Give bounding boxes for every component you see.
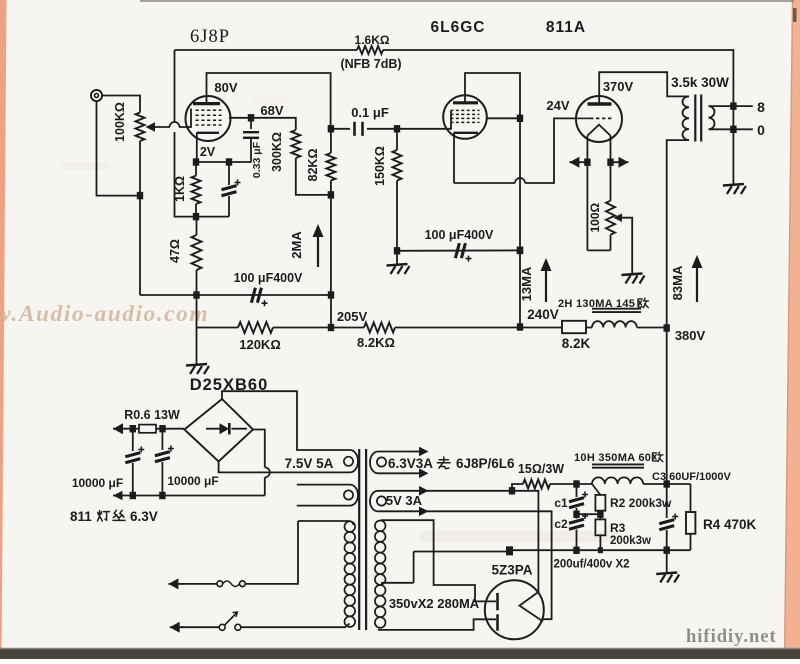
svg-text:200uf/400v X2: 200uf/400v X2	[553, 559, 629, 571]
svg-text:6J8P/6L6: 6J8P/6L6	[456, 456, 515, 471]
svg-text:240V: 240V	[527, 307, 559, 322]
svg-text:(NFB 7dB): (NFB 7dB)	[340, 57, 401, 71]
svg-text:c1: c1	[554, 496, 568, 510]
svg-text:ww.Audio-audio.com: ww.Audio-audio.com	[0, 301, 209, 327]
svg-text:10000 μF: 10000 μF	[167, 474, 218, 488]
svg-text:100 μF400V: 100 μF400V	[425, 228, 494, 242]
svg-text:2MA: 2MA	[289, 231, 304, 259]
svg-text:350vX2 280MA: 350vX2 280MA	[389, 596, 480, 611]
svg-text:10000 μF: 10000 μF	[72, 476, 123, 490]
svg-text:6J8P: 6J8P	[190, 27, 230, 47]
svg-text:200k3w: 200k3w	[610, 535, 651, 547]
svg-text:3.5k 30W: 3.5k 30W	[671, 75, 729, 90]
svg-text:82KΩ: 82KΩ	[306, 149, 320, 182]
svg-text:2V: 2V	[200, 145, 216, 159]
svg-text:120KΩ: 120KΩ	[239, 337, 281, 352]
svg-text:1.6KΩ: 1.6KΩ	[355, 33, 390, 47]
svg-text:R2 200k3w: R2 200k3w	[610, 496, 672, 510]
svg-text:8: 8	[757, 99, 765, 115]
svg-text:0.33 μF: 0.33 μF	[251, 141, 263, 178]
svg-text:80V: 80V	[214, 80, 237, 95]
svg-text:8.2KΩ: 8.2KΩ	[357, 335, 395, 350]
svg-text:68V: 68V	[260, 103, 283, 118]
svg-text:150KΩ: 150KΩ	[373, 146, 387, 186]
svg-text:0: 0	[757, 122, 765, 138]
svg-text:10H 350MA 60: 10H 350MA 60	[574, 452, 651, 464]
svg-text:100KΩ: 100KΩ	[113, 102, 127, 142]
svg-text:6L6GC: 6L6GC	[431, 19, 486, 36]
svg-text:hifidiy.net: hifidiy.net	[686, 627, 777, 647]
svg-text:100Ω: 100Ω	[588, 203, 602, 233]
svg-text:205V: 205V	[337, 309, 368, 324]
svg-text:83MA: 83MA	[670, 265, 685, 300]
svg-text:5Z3PA: 5Z3PA	[491, 563, 532, 578]
svg-text:15Ω/3W: 15Ω/3W	[518, 462, 564, 476]
svg-text:1KΩ: 1KΩ	[173, 176, 187, 202]
svg-text:811A: 811A	[546, 19, 586, 36]
svg-text:C3 60UF/1000V: C3 60UF/1000V	[652, 471, 732, 483]
svg-text:0.1 μF: 0.1 μF	[351, 105, 389, 120]
svg-text:c2: c2	[554, 517, 568, 531]
svg-text:380V: 380V	[675, 328, 706, 343]
svg-text:6.3V: 6.3V	[130, 509, 158, 524]
svg-text:13MA: 13MA	[519, 266, 534, 301]
svg-text:R3: R3	[610, 521, 626, 535]
svg-text:5V 3A: 5V 3A	[386, 493, 423, 508]
svg-text:370V: 370V	[603, 79, 634, 94]
svg-text:R4 470K: R4 470K	[703, 517, 757, 532]
svg-text:811: 811	[70, 509, 92, 524]
svg-text:6.3V3A: 6.3V3A	[388, 456, 433, 471]
svg-text:300KΩ: 300KΩ	[270, 132, 284, 172]
svg-text:8.2K: 8.2K	[562, 336, 591, 351]
svg-text:7.5V 5A: 7.5V 5A	[285, 456, 334, 471]
svg-text:100 μF400V: 100 μF400V	[234, 271, 303, 285]
svg-text:47Ω: 47Ω	[168, 239, 182, 263]
svg-text:24V: 24V	[546, 98, 569, 113]
svg-text:2H 130MA 145: 2H 130MA 145	[558, 298, 635, 310]
svg-text:R0.6 13W: R0.6 13W	[124, 408, 180, 422]
